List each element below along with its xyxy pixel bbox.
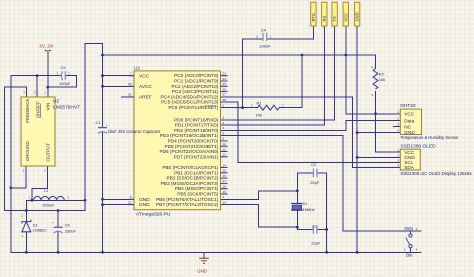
- node PB6 crystal junction: [296, 189, 299, 192]
- svg-text:2: 2: [371, 65, 373, 69]
- svg-text:ON/OFF: ON/OFF: [36, 101, 41, 118]
- node VCC port rail junction: [344, 54, 347, 57]
- svg-text:AVCC: AVCC: [139, 84, 152, 90]
- wire PB7 to crystal: [221, 205, 298, 228]
- svg-text:Btn: Btn: [406, 253, 413, 258]
- wire C3 to ground column: [317, 228, 327, 230]
- wire VOUT riser: [85, 43, 103, 210]
- U1 right pin names PD port: [159, 117, 218, 159]
- svg-text:PB6 (PCINT6/XTAL1/TOSC1): PB6 (PCINT6/XTAL1/TOSC1): [156, 197, 219, 202]
- svg-text:4: 4: [397, 129, 399, 133]
- wire SW1 top stub: [410, 231, 412, 234]
- svg-text:SW1: SW1: [404, 226, 414, 231]
- wire GROUND pin to rail: [11, 166, 26, 188]
- svg-text:4: 4: [23, 91, 25, 95]
- port RTS: [311, 2, 316, 26]
- wire crystal bottom node: [297, 210, 313, 229]
- svg-text:VCC: VCC: [139, 73, 150, 79]
- svg-text:2: 2: [282, 103, 284, 107]
- wire PD2 to DHT22 data: [221, 121, 401, 131]
- svg-text:Temperature & Humidity Sensor: Temperature & Humidity Sensor: [400, 135, 459, 140]
- svg-text:22pF: 22pF: [310, 180, 320, 185]
- ground symbol GND: [197, 258, 209, 273]
- svg-text:U1: U1: [134, 65, 140, 71]
- wire AREF stub: [122, 96, 135, 98]
- svg-text:2: 2: [44, 169, 46, 173]
- wire C5 ground line to left rail: [11, 76, 61, 253]
- svg-text:GND: GND: [197, 269, 207, 274]
- wire R1 to VCC rail: [280, 55, 303, 108]
- svg-text:10uF 25V Ceramic Capacitor: 10uF 25V Ceramic Capacitor: [108, 129, 161, 134]
- svg-text:DHT22: DHT22: [400, 103, 416, 109]
- svg-text:20: 20: [128, 82, 132, 86]
- svg-text:PD7 (PCINT23/AIN1): PD7 (PCINT23/AIN1): [174, 154, 219, 159]
- wire chip GND pin 8: [103, 198, 135, 200]
- svg-text:5: 5: [34, 91, 36, 95]
- wire PD1 TXD to RX port: [221, 26, 325, 125]
- svg-text:OUTPUT: OUTPUT: [46, 143, 51, 162]
- svg-text:1: 1: [57, 71, 59, 75]
- diode D1 1N5822: [21, 214, 47, 239]
- wire OUTPUT pin to inductor: [32, 166, 48, 200]
- node C4 reset junction: [241, 106, 244, 109]
- svg-text:3: 3: [397, 123, 399, 127]
- svg-text:3: 3: [404, 248, 406, 252]
- svg-text:PB2 (SS/OC1B/PCINT2): PB2 (SS/OC1B/PCINT2): [167, 176, 219, 181]
- svg-text:21: 21: [128, 93, 132, 97]
- svg-text:1: 1: [371, 93, 373, 97]
- svg-text:23: 23: [223, 72, 227, 76]
- wire D1 anode to ground bus: [25, 232, 27, 253]
- svg-text:1: 1: [270, 34, 272, 38]
- svg-text:2: 2: [397, 117, 399, 121]
- svg-text:PD5 (PCINT21/OC0B/T1): PD5 (PCINT21/OC0B/T1): [164, 144, 218, 149]
- capacitor C2: [310, 162, 320, 185]
- svg-text:PB4 (MISO/PCINT4): PB4 (MISO/PCINT4): [175, 186, 219, 191]
- svg-text:SSD1306 I2C OLED Display 128x6: SSD1306 I2C OLED Display 128x64: [400, 171, 472, 176]
- op-amp U1 ATmega328 body: [134, 65, 221, 217]
- svg-text:C5: C5: [61, 65, 67, 70]
- svg-text:6: 6: [223, 137, 225, 141]
- wire C4 branch from reset: [243, 39, 263, 108]
- svg-text:2: 2: [256, 34, 258, 38]
- wire C2 to ground column: [317, 173, 327, 253]
- svg-text:1: 1: [251, 103, 253, 107]
- svg-text:PD3 (PCINT19/OC2B/INT1): PD3 (PCINT19/OC2B/INT1): [160, 133, 219, 138]
- svg-text:PC2 (ADC2/PCINT10): PC2 (ADC2/PCINT10): [172, 84, 219, 89]
- capacitor C5: [57, 65, 71, 86]
- node R1 rail junction: [301, 54, 304, 57]
- node L1 pin2 riser junction: [84, 199, 87, 202]
- svg-text:AREF: AREF: [139, 95, 152, 101]
- svg-text:14: 14: [223, 163, 227, 167]
- svg-text:VCC: VCC: [404, 112, 415, 117]
- wire OLED GND: [357, 156, 400, 158]
- node OUTPUT-inductor junction: [31, 199, 34, 202]
- wire VIN input stem: [47, 53, 49, 98]
- svg-text:1N5822: 1N5822: [33, 228, 48, 233]
- node VCC pin junction: [101, 74, 104, 77]
- wire VCC column to C1: [102, 55, 104, 128]
- svg-text:3: 3: [23, 169, 25, 173]
- svg-text:NC: NC: [404, 124, 411, 129]
- node C3 ground junction: [325, 228, 328, 231]
- capacitor C1: [96, 120, 109, 133]
- svg-text:U2: U2: [53, 98, 59, 104]
- svg-text:C6: C6: [65, 222, 71, 227]
- node GND pin 22 junction: [101, 203, 104, 206]
- wire VOUT bus: [5, 210, 85, 212]
- svg-text:R2: R2: [379, 71, 385, 76]
- wire ON/OFF stub: [36, 76, 38, 97]
- svg-text:L1: L1: [44, 188, 49, 193]
- wire PB6 to crystal: [221, 191, 298, 200]
- U1 RESET overline: [205, 105, 217, 107]
- svg-text:9: 9: [223, 195, 225, 199]
- svg-text:19: 19: [223, 190, 227, 194]
- port VCC: [343, 2, 348, 26]
- node VCC rail start: [101, 54, 104, 57]
- node OLED GND junction: [356, 156, 359, 159]
- svg-text:1: 1: [29, 196, 31, 200]
- svg-text:LM2576HVT: LM2576HVT: [53, 104, 80, 110]
- svg-text:24: 24: [223, 77, 227, 81]
- U1 left pin names: [139, 73, 152, 208]
- svg-text:2: 2: [416, 227, 418, 231]
- svg-text:11: 11: [223, 142, 226, 146]
- svg-text:C2: C2: [311, 162, 317, 167]
- node crystal ground junction: [325, 251, 328, 254]
- svg-text:1: 1: [397, 148, 399, 152]
- svg-text:10: 10: [223, 200, 227, 204]
- wire C5 positive return to VIN: [48, 76, 77, 88]
- node DHT22 GND junction: [356, 131, 359, 134]
- node C6 ground junction: [57, 251, 60, 254]
- svg-text:PB7 (PCINT7/XTAL2/TOSC2): PB7 (PCINT7/XTAL2/TOSC2): [156, 202, 219, 207]
- svg-text:2: 2: [223, 116, 225, 120]
- svg-text:16MHz: 16MHz: [303, 208, 315, 212]
- wire SW1 bottom stub: [410, 248, 412, 253]
- svg-text:26: 26: [223, 87, 227, 91]
- wire inductor baseline: [26, 199, 85, 201]
- node PB7 crystal junction: [296, 226, 299, 229]
- svg-text:4: 4: [416, 248, 418, 252]
- capacitor C3: [311, 224, 321, 245]
- svg-text:PB1 (OC1A/PCINT1): PB1 (OC1A/PCINT1): [174, 170, 219, 175]
- port GND: [354, 2, 359, 26]
- svg-text:GROUND: GROUND: [25, 141, 30, 162]
- svg-text:RTS: RTS: [311, 13, 316, 21]
- svg-text:VCC: VCC: [343, 13, 348, 22]
- svg-text:5: 5: [223, 132, 225, 136]
- node R2 VCC line junction: [374, 112, 377, 115]
- regulator U2: [21, 91, 80, 173]
- switch SW1: [404, 226, 418, 258]
- svg-text:+: +: [106, 123, 108, 127]
- svg-text:4: 4: [223, 126, 225, 130]
- node C6 on VOUT bus: [57, 209, 60, 212]
- wire AVCC pin: [103, 85, 135, 87]
- svg-text:GND: GND: [139, 197, 150, 203]
- svg-text:Data: Data: [404, 118, 414, 123]
- wire VCC rail into R2: [375, 55, 377, 69]
- svg-text:13: 13: [223, 153, 227, 157]
- U1 right pin names PB port: [156, 165, 219, 207]
- svg-text:27: 27: [223, 93, 227, 97]
- wire C6 top: [57, 211, 59, 228]
- svg-text:7: 7: [130, 72, 132, 76]
- svg-text:PC5 (ADC5/SCL/PCINT13): PC5 (ADC5/SCL/PCINT13): [161, 100, 219, 105]
- svg-text:28: 28: [223, 98, 227, 102]
- node AVCC pin junction: [101, 85, 104, 88]
- port TX: [332, 2, 337, 26]
- wire VCC port drop to DHT22 VCC: [346, 26, 401, 114]
- svg-text:D1: D1: [33, 222, 39, 227]
- svg-text:ATmega328-PU: ATmega328-PU: [136, 212, 171, 218]
- svg-text:2: 2: [68, 71, 70, 75]
- node GROUND-rail junction: [9, 186, 12, 189]
- svg-text:2: 2: [68, 196, 70, 200]
- svg-text:1: 1: [44, 91, 46, 95]
- svg-text:PC4 (ADC4/SDA/PCINT12): PC4 (ADC4/SDA/PCINT12): [161, 94, 219, 99]
- svg-text:2: 2: [21, 214, 23, 218]
- svg-text:GND: GND: [139, 202, 150, 208]
- resistor R2: [371, 65, 385, 97]
- U1 right pin names PC port: [161, 73, 219, 110]
- capacitor C6: [52, 220, 76, 233]
- inductor L1: [29, 188, 70, 208]
- svg-text:1: 1: [223, 103, 225, 107]
- svg-text:PB3 (MOSI/OC2A/PCINT3): PB3 (MOSI/OC2A/PCINT3): [161, 181, 219, 186]
- node GND pin 8 junction: [101, 198, 104, 201]
- svg-text:16: 16: [223, 174, 227, 178]
- svg-text:PD2 (PCINT18/INT0): PD2 (PCINT18/INT0): [174, 128, 219, 133]
- display SSD1306 OLED: [397, 144, 436, 171]
- wire crystal top node: [297, 173, 313, 204]
- svg-text:VIN: VIN: [46, 103, 51, 111]
- svg-text:RX: RX: [322, 16, 327, 22]
- wire FEEDBACK to left rail: [5, 87, 27, 210]
- svg-text:TX: TX: [332, 16, 337, 22]
- svg-text:10k: 10k: [379, 77, 385, 82]
- wire PD3 to switch: [221, 136, 422, 231]
- svg-text:X1: X1: [303, 202, 308, 206]
- svg-text:PB5 (SCK/PCINT5): PB5 (SCK/PCINT5): [177, 192, 218, 197]
- wire DHT22 NC stub: [394, 126, 401, 128]
- U1 left pin numbers: [128, 72, 132, 205]
- wire chip GND pin 22: [103, 204, 135, 206]
- wire SDA net PC4 to OLED: [221, 97, 401, 167]
- resistor R1: [251, 101, 284, 118]
- svg-text:PD1 (PCINT17/TXD): PD1 (PCINT17/TXD): [175, 123, 219, 128]
- svg-text:100nF: 100nF: [259, 43, 271, 48]
- svg-text:330uF: 330uF: [65, 229, 77, 234]
- svg-text:2: 2: [397, 154, 399, 158]
- svg-text:GND: GND: [355, 12, 360, 21]
- sensor DHT22: [397, 103, 421, 135]
- svg-text:PB0 (PCINT0/CLKO/ICP1): PB0 (PCINT0/CLKO/ICP1): [162, 165, 218, 170]
- svg-text:17: 17: [223, 179, 227, 183]
- svg-text:18: 18: [223, 185, 227, 189]
- svg-text:PC0 (ADC0/PCINT8): PC0 (ADC0/PCINT8): [174, 73, 219, 78]
- wire GND port drop: [356, 26, 358, 252]
- svg-text:SDA: SDA: [404, 165, 415, 170]
- svg-text:100uF: 100uF: [59, 81, 71, 86]
- wire VCC pin: [103, 75, 135, 77]
- svg-text:3: 3: [397, 158, 399, 162]
- svg-text:C1: C1: [96, 120, 102, 125]
- U1 right pin numbers: [223, 72, 227, 205]
- wire VCC rail: [103, 54, 376, 56]
- svg-text:FEEDBACK: FEEDBACK: [25, 99, 30, 123]
- node D1 on VOUT bus: [25, 209, 28, 212]
- wire RESET net PC6 to R1: [221, 107, 258, 109]
- wire R2 to OLED VCC: [376, 92, 401, 153]
- node VIN-C5 junction: [46, 86, 49, 89]
- svg-text:1: 1: [21, 234, 23, 238]
- svg-text:6V...9V: 6V...9V: [40, 44, 54, 49]
- power port 6V-9V: [40, 44, 54, 52]
- svg-text:1: 1: [397, 110, 399, 114]
- svg-text:100uH: 100uH: [42, 203, 54, 208]
- wire GND symbol stub: [203, 252, 205, 257]
- svg-text:15: 15: [223, 169, 227, 173]
- svg-text:PD0 (PCINT16/RXD): PD0 (PCINT16/RXD): [174, 117, 219, 122]
- svg-text:8: 8: [130, 195, 132, 199]
- svg-text:22pF: 22pF: [311, 241, 321, 246]
- node GND port bus junction: [356, 251, 359, 254]
- wire node A drop through D1: [25, 200, 27, 221]
- svg-text:25: 25: [223, 82, 227, 86]
- svg-text:12: 12: [223, 147, 227, 151]
- svg-text:PD4 (PCINT20/XCK/T0): PD4 (PCINT20/XCK/T0): [168, 139, 219, 144]
- U1 left pin stubs: [129, 76, 135, 205]
- wire C1 to ground bus: [102, 132, 104, 253]
- svg-text:PC3 (ADC3/PCINT11): PC3 (ADC3/PCINT11): [172, 89, 219, 94]
- wire SCL net PC5 to OLED: [221, 102, 401, 162]
- wire C6 bottom: [57, 232, 59, 253]
- U1 right pin stubs: [221, 76, 228, 194]
- svg-text:+: +: [52, 220, 54, 224]
- svg-text:3: 3: [223, 121, 225, 125]
- capacitor C4: [256, 28, 271, 49]
- wire C4 to RTS port: [267, 26, 314, 39]
- svg-text:PD6 (PCINT22/OC0A/AIN0): PD6 (PCINT22/OC0A/AIN0): [159, 149, 218, 154]
- wire DHT22 GND: [357, 132, 400, 134]
- port RX: [322, 2, 327, 26]
- svg-text:PC1 (ADC1/PCINT9): PC1 (ADC1/PCINT9): [174, 79, 219, 84]
- crystal X1: [291, 202, 315, 212]
- svg-text:4: 4: [397, 163, 399, 167]
- wire PD0 RXD to TX port: [221, 26, 335, 120]
- node D1 ground junction: [25, 251, 28, 254]
- node C1 ground junction: [101, 251, 104, 254]
- wire ground bus: [11, 251, 421, 253]
- svg-text:22: 22: [128, 200, 132, 204]
- svg-text:10k: 10k: [256, 113, 262, 118]
- svg-text:C4: C4: [261, 28, 267, 33]
- node ON/OFF-ground junction: [36, 74, 39, 77]
